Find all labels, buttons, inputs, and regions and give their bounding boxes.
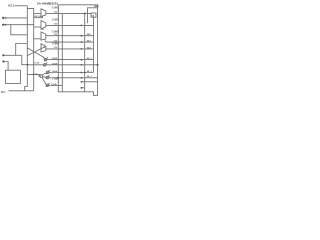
svg-text:SA_2: SA_2 bbox=[87, 75, 93, 78]
svg-text:C-5M4: C-5M4 bbox=[52, 42, 60, 45]
svg-text:5A: 5A bbox=[92, 14, 95, 17]
svg-text:SA_1: SA_1 bbox=[87, 70, 93, 73]
svg-text:C-5M2: C-5M2 bbox=[52, 18, 60, 21]
svg-text:5kW: 5kW bbox=[41, 29, 45, 31]
svg-text:S_W1: S_W1 bbox=[34, 62, 39, 64]
svg-text:C-5M3: C-5M3 bbox=[52, 30, 60, 33]
svg-text:SA_1: SA_1 bbox=[87, 57, 93, 60]
svg-text:SW_B1: SW_B1 bbox=[34, 16, 41, 18]
svg-text:C-5M1: C-5M1 bbox=[52, 6, 60, 9]
svg-text:MB21: MB21 bbox=[94, 6, 100, 8]
svg-text:SCL2: SCL2 bbox=[8, 5, 15, 8]
svg-text:1.5kW: 1.5kW bbox=[51, 84, 57, 86]
svg-text:4_SW: 4_SW bbox=[33, 73, 38, 76]
svg-text:BU--: BU-- bbox=[1, 91, 6, 94]
svg-text:1.5kW: 1.5kW bbox=[52, 58, 58, 60]
svg-text:1.5kW: 1.5kW bbox=[52, 71, 58, 73]
svg-text:L_SW1: L_SW1 bbox=[52, 78, 58, 80]
svg-text:1.5kW: 1.5kW bbox=[52, 63, 58, 65]
svg-text:24-0HMB2(S): 24-0HMB2(S) bbox=[37, 1, 58, 5]
